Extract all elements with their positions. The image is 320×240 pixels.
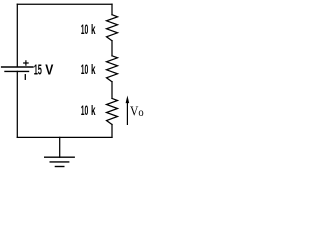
- svg-text:o: o: [138, 107, 144, 119]
- ground symbol bar 3: [55, 166, 63, 168]
- value label 10 k (resistor R1): [81, 21, 96, 37]
- svg-text:k: k: [91, 21, 96, 37]
- value label 10 k (resistor R2): [81, 61, 96, 77]
- ground symbol bar 2: [50, 161, 68, 163]
- wire: top right drop to R1: [111, 4, 113, 15]
- value label 10 k (resistor R3): [81, 102, 96, 118]
- value label 15 V: [34, 63, 54, 79]
- svg-text:10: 10: [81, 21, 89, 37]
- svg-text:k: k: [91, 61, 96, 77]
- wire: bottom conductor: [17, 136, 112, 138]
- ground symbol stem: [59, 137, 61, 157]
- vo reference arrowhead: [126, 96, 130, 104]
- svg-text:k: k: [91, 102, 96, 118]
- wire: left conductor lower (battery - lead): [16, 71, 18, 137]
- svg-text:10: 10: [81, 102, 89, 118]
- svg-text:V: V: [130, 105, 138, 120]
- wire: top conductor: [17, 3, 112, 5]
- wire: R2 to R3: [111, 82, 113, 99]
- battery + polarity mark: [24, 61, 28, 65]
- wire: left conductor upper (battery + lead): [16, 4, 18, 67]
- vo reference arrow shaft: [126, 102, 128, 125]
- battery V1 positive plate (long): [2, 66, 33, 68]
- wire: R1 to R2: [111, 41, 113, 56]
- resistor R1 zigzag: [107, 15, 118, 41]
- svg-text:15: 15: [34, 63, 42, 79]
- wire: R3 to bottom conductor: [111, 125, 113, 138]
- resistor R3 zigzag: [107, 98, 118, 124]
- output voltage label Vo: [130, 105, 144, 120]
- battery - polarity tick: [24, 75, 26, 80]
- resistor R2 zigzag: [107, 56, 118, 82]
- ground symbol bar 1: [45, 156, 74, 158]
- svg-text:V: V: [45, 63, 53, 79]
- battery V1 negative plate (short): [5, 70, 29, 72]
- svg-text:10: 10: [81, 61, 89, 77]
